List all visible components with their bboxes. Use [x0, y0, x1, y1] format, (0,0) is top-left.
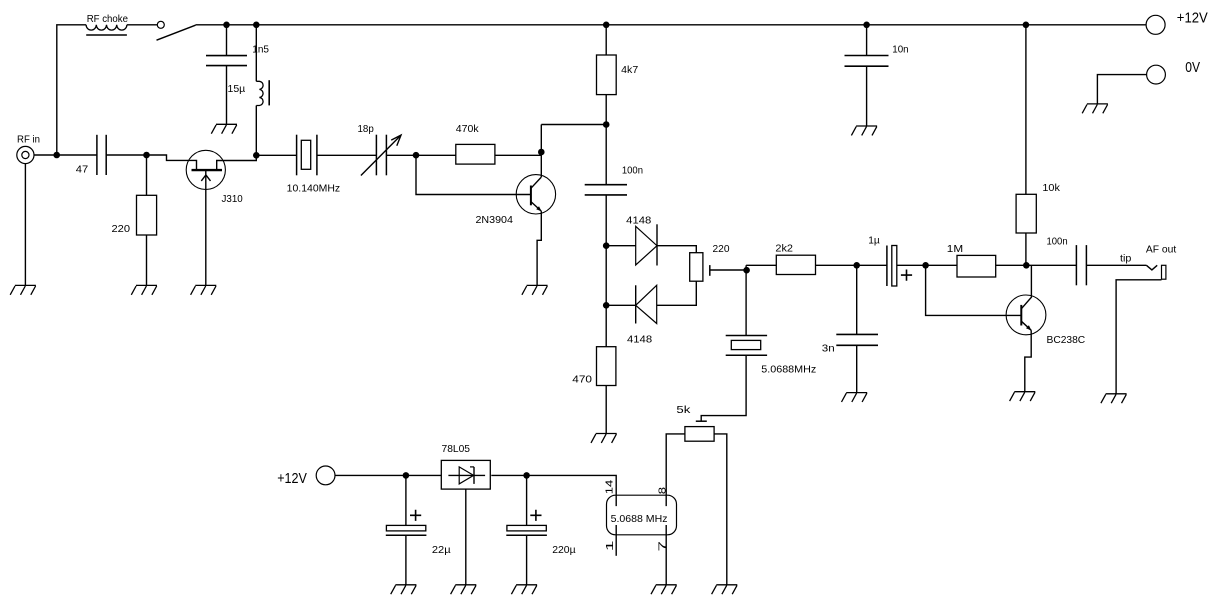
pin 7 wire	[665, 525, 667, 585]
ground Q3 emitter	[1010, 392, 1036, 401]
svg-text:4148: 4148	[626, 216, 651, 227]
svg-text:1µ: 1µ	[868, 236, 880, 247]
wire 5k left to pin8	[666, 434, 685, 506]
wire R220 to ground	[146, 235, 148, 285]
node rail 10k	[1023, 22, 1030, 29]
svg-text:3n: 3n	[822, 344, 835, 355]
node oscillator junction	[413, 152, 420, 159]
wire mixer column	[605, 195, 607, 347]
oscillator module U1 5.0688 MHz	[607, 495, 677, 535]
node collector junction	[538, 149, 545, 156]
svg-text:47: 47	[76, 165, 89, 176]
wire C18p to node	[386, 154, 416, 156]
capacitor C 15u	[206, 55, 247, 57]
node drain junction	[253, 152, 260, 159]
svg-text:4148: 4148	[627, 335, 652, 346]
node 4k7 bottom	[603, 121, 610, 128]
wire R470k to collector node	[495, 154, 541, 156]
potentiometer R 220 trim	[690, 253, 703, 282]
wire C10n to ground	[866, 66, 868, 126]
resistor R 1M	[957, 255, 996, 277]
wire collector node to 4k7 node	[541, 124, 606, 126]
node gate junction	[143, 152, 150, 159]
ground C220u	[511, 585, 537, 594]
wire C3n to ground	[856, 345, 858, 392]
node diode D2 junction	[603, 302, 610, 309]
wire C22u to ground	[405, 535, 407, 585]
wire XTAL1 to C18p	[317, 154, 377, 156]
svg-text:220µ: 220µ	[552, 545, 575, 556]
wire RF in to C47	[34, 154, 97, 156]
svg-text:10k: 10k	[1042, 183, 1060, 194]
ground 5k right	[712, 585, 738, 594]
transistor Q3 BC238C	[1006, 295, 1046, 335]
terminal +12V top	[1146, 15, 1165, 34]
svg-text:470k: 470k	[456, 124, 480, 135]
svg-text:1n5: 1n5	[252, 44, 269, 55]
resistor R 10k	[1016, 194, 1036, 233]
wire +12V rail top-left corner segment	[57, 25, 86, 155]
wire 78L05 to module	[491, 475, 616, 506]
wire Q3 emitter	[1025, 330, 1031, 391]
ground C22u	[391, 585, 417, 594]
node mixer output	[743, 267, 750, 274]
svg-text:1M: 1M	[947, 244, 963, 255]
regulator U2 78L05	[441, 460, 490, 489]
wire RF in shield stem	[24, 164, 26, 286]
inductor RF choke	[86, 25, 127, 30]
node Q3 collector junction	[1023, 262, 1030, 269]
wire 5k right to ground	[714, 434, 727, 585]
wire node to XTAL1	[256, 154, 296, 156]
svg-text:100n: 100n	[622, 166, 643, 177]
svg-text:2k2: 2k2	[775, 244, 793, 255]
ground 0V	[1082, 104, 1108, 113]
svg-text:10.140MHz: 10.140MHz	[287, 184, 340, 195]
wire node to R2k2	[746, 264, 776, 266]
capacitor C 22u electrolytic	[386, 525, 425, 531]
connector RF in	[17, 146, 34, 163]
svg-text:5.0688 MHz: 5.0688 MHz	[611, 514, 668, 525]
svg-text:BC238C: BC238C	[1047, 335, 1086, 346]
wire node to C220u	[526, 475, 528, 525]
node rail 15u	[223, 22, 230, 29]
wire rail to coil	[255, 25, 257, 82]
wire C100n to jack	[1086, 264, 1146, 266]
wire +12V rail	[196, 24, 1147, 26]
wire node riser	[745, 265, 747, 335]
capacitor C 10n	[845, 55, 889, 57]
wire R1M to collector node	[996, 264, 1077, 266]
transistor Q2 2N3904	[516, 175, 555, 214]
jack sleeve	[1162, 265, 1166, 279]
diode D2 4148	[636, 285, 657, 323]
svg-text:8: 8	[657, 487, 668, 495]
wire rail to R4k7	[605, 25, 607, 55]
capacitor C 1u electrolytic	[886, 246, 888, 287]
capacitor C 100n output	[1075, 245, 1077, 285]
wire rail to C10n	[866, 25, 868, 56]
wire R2k2 to C1u	[816, 264, 887, 266]
node 3n junction	[853, 262, 860, 269]
wire base feedback run	[926, 265, 1022, 315]
svg-text:100n: 100n	[1047, 236, 1068, 247]
wire wiper to node	[710, 269, 746, 271]
wire coil to drain node	[255, 106, 257, 156]
capacitor C 18p trimmer	[375, 135, 377, 176]
wire X2 to 5k wiper	[701, 355, 746, 421]
wire sleeve to ground	[1116, 280, 1161, 394]
crystal X2 5.0688MHz	[726, 335, 767, 337]
wire C47 to gate node	[106, 154, 146, 156]
wire C15u to ground	[226, 66, 228, 125]
ground jack sleeve	[1101, 394, 1127, 403]
wire node to R220	[146, 155, 148, 195]
terminal +12V bottom	[316, 466, 335, 485]
wire R10k down	[1025, 233, 1027, 265]
wire R470 to ground	[605, 386, 607, 434]
node rail drop / RF in junction	[53, 152, 60, 159]
node base feedback	[922, 262, 929, 269]
svg-text:5.0688MHz: 5.0688MHz	[761, 365, 816, 376]
svg-text:+12V: +12V	[277, 471, 307, 487]
potentiometer R 5k	[685, 427, 714, 442]
svg-text:22µ: 22µ	[432, 545, 451, 556]
wire Q2 emitter	[537, 211, 541, 285]
svg-text:0V: 0V	[1185, 60, 1200, 76]
node diode D1 junction	[603, 242, 610, 249]
inductor L1 (1n5 tank coil)	[256, 81, 263, 105]
svg-text:J310: J310	[222, 194, 243, 205]
wire 78L05 ground lead	[465, 489, 467, 585]
resistor R 2k2	[776, 255, 815, 274]
svg-text:78L05: 78L05	[442, 444, 471, 455]
node rail 4k7	[603, 22, 610, 29]
ground RF in	[10, 285, 36, 294]
ground J310 source	[191, 285, 217, 294]
svg-text:RF choke: RF choke	[87, 14, 129, 25]
transistor Q1 J310	[186, 150, 225, 189]
plus C22u	[410, 510, 421, 521]
wire +12V to 78L05	[335, 474, 441, 476]
switch SW1 blade	[157, 25, 196, 40]
wire node to D1	[606, 245, 636, 247]
ground R220	[131, 285, 157, 294]
pin 1 stub	[615, 525, 617, 556]
wire C220u to ground	[526, 535, 528, 585]
jack tip contact	[1146, 265, 1157, 270]
capacitor C 220u electrolytic	[507, 525, 546, 531]
wire rail to R10k	[1025, 25, 1027, 195]
svg-text:RF in: RF in	[17, 135, 40, 146]
resistor R 220	[137, 195, 157, 235]
svg-text:tip: tip	[1120, 254, 1132, 265]
svg-text:10n: 10n	[892, 45, 909, 56]
resistor R 470k	[456, 144, 495, 164]
wire R4k7 down	[605, 95, 607, 125]
wire choke to switch	[127, 24, 157, 26]
node rail 1n5	[253, 22, 260, 29]
svg-text:15µ: 15µ	[228, 84, 246, 95]
resistor R 470	[597, 347, 616, 386]
capacitor C 47	[96, 135, 98, 175]
plus C1u	[901, 270, 912, 281]
wire gate jog	[147, 155, 197, 169]
svg-text:14: 14	[604, 480, 615, 495]
svg-text:1: 1	[605, 540, 616, 551]
capacitor C 3n	[836, 333, 878, 335]
svg-text:2N3904: 2N3904	[476, 215, 514, 226]
svg-text:AF out: AF out	[1146, 244, 1176, 255]
wire collector riser	[540, 125, 542, 178]
wire D2 to pot bottom	[657, 281, 697, 305]
ground C15u	[211, 124, 237, 133]
svg-text:18p: 18p	[358, 124, 375, 135]
svg-text:220: 220	[112, 224, 131, 235]
plus C220u	[530, 510, 541, 521]
ground Q2 emitter	[522, 285, 548, 294]
diode D1 4148	[636, 226, 657, 265]
wire C1u to R1M	[897, 264, 957, 266]
wire D1 to pot top	[657, 246, 696, 253]
resistor R 4k7	[597, 55, 617, 95]
wire node to C100n	[605, 125, 607, 185]
wire rail to C15u	[226, 25, 228, 56]
capacitor C 100n	[585, 184, 627, 186]
switch SW1 contact	[157, 21, 164, 28]
node 220u junction	[523, 472, 530, 479]
wire base feed	[416, 155, 531, 194]
node rail 10n	[863, 22, 870, 29]
ground pin 7	[651, 585, 677, 594]
ground 78L05	[451, 585, 477, 594]
wire 0V to ground	[1097, 75, 1146, 104]
svg-text:5k: 5k	[676, 405, 691, 416]
wire node to C3n	[856, 265, 858, 334]
terminal 0V	[1147, 65, 1166, 84]
wire node to D2	[606, 304, 636, 306]
svg-text:220: 220	[713, 244, 730, 255]
crystal X1 10.140MHz	[296, 135, 298, 176]
wire node to C22u	[405, 475, 407, 525]
node 22u junction	[403, 472, 410, 479]
svg-text:4k7: 4k7	[621, 65, 638, 76]
ground C3n	[842, 393, 868, 402]
wire node to R470k	[416, 154, 456, 156]
wiper tick 5k	[696, 420, 707, 422]
svg-text:+12V: +12V	[1177, 10, 1208, 26]
ground R470	[591, 434, 617, 443]
ground C10n	[851, 126, 877, 135]
svg-text:470: 470	[572, 374, 592, 385]
